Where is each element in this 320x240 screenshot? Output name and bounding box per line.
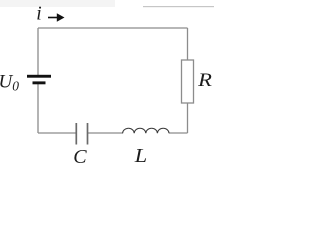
- svg-text:U0: U0: [0, 72, 19, 94]
- svg-text:R: R: [197, 71, 212, 91]
- svg-text:L: L: [134, 146, 148, 167]
- svg-text:C: C: [73, 146, 87, 168]
- svg-text:i: i: [36, 4, 41, 25]
